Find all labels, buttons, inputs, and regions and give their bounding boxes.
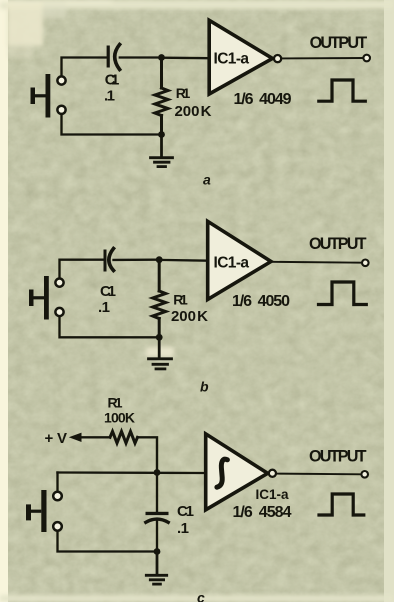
wire: buffer output to terminal (b) [271, 261, 362, 264]
svg-text:100K: 100K [104, 409, 135, 425]
terminal lower (a) [57, 106, 65, 114]
pushbutton S1 (circuit c) [26, 490, 47, 532]
wire: bubble to output terminal (a) [281, 57, 363, 59]
junction node A top (a) [158, 54, 165, 61]
svg-text:R1: R1 [108, 395, 123, 411]
terminal lower (b) [55, 308, 63, 316]
svg-text:IC1-a: IC1-a [256, 487, 289, 502]
junction node (c) [154, 469, 161, 476]
wire: node to buffer input (b) [159, 259, 207, 262]
svg-text:1/6 4049: 1/6 4049 [234, 91, 292, 108]
svg-text:IC1-a: IC1-a [214, 51, 250, 68]
wire: input rail (c) [58, 471, 205, 474]
resistor R1 200K (b) [153, 260, 166, 338]
buffer U1 IC1-a (b) [208, 221, 271, 299]
svg-text:C1: C1 [100, 283, 116, 300]
svg-text:R1: R1 [173, 292, 188, 308]
svg-text:200 K: 200 K [175, 103, 212, 120]
output terminal (b) [362, 260, 369, 267]
op-amp inverter U1 IC1-a (a) [209, 20, 272, 94]
ground (c) [146, 552, 166, 585]
svg-text:c: c [197, 590, 205, 602]
wire: capacitor down to bottom node (c) [156, 521, 158, 552]
pushbutton S1 (circuit a) [31, 74, 51, 118]
wire: upper terminal to top rail (b) [60, 260, 104, 279]
svg-text:b: b [200, 379, 209, 395]
capacitor C1 (c) [146, 512, 169, 523]
capacitor C1 (a) [107, 45, 120, 70]
terminal upper (b) [55, 279, 63, 287]
ground (b) [149, 337, 172, 369]
hysteresis symbol (c) [217, 459, 228, 487]
junction node bottom (a) [158, 131, 165, 138]
arrow to +V (c) [69, 433, 110, 442]
svg-text:IC1-a: IC1-a [214, 254, 250, 271]
pulse waveform icon (b) [319, 282, 367, 305]
wire: upper terminal to top rail (a) [62, 58, 107, 77]
terminal lower (c) [53, 522, 62, 531]
svg-text:C1: C1 [177, 503, 194, 520]
svg-text:C1: C1 [105, 72, 120, 89]
capacitor C1 (b) [104, 249, 114, 272]
svg-text:200 K: 200 K [171, 308, 208, 325]
svg-text:.1: .1 [104, 87, 115, 104]
wire: lower terminal to bottom rail (b) [60, 317, 160, 338]
inverter output bubble (a) [274, 55, 281, 62]
junction node bottom (c) [154, 548, 161, 555]
svg-text:1/6 4050: 1/6 4050 [232, 293, 290, 310]
svg-text:.1: .1 [98, 299, 110, 316]
junction node bottom (b) [156, 334, 163, 341]
junction node top (b) [156, 256, 163, 263]
wire: resistor to corner then down to node (c) [138, 437, 158, 472]
wire: bubble to output terminal (c) [276, 473, 362, 476]
terminal upper (c) [53, 492, 62, 501]
terminal upper (a) [57, 76, 65, 84]
schmitt output bubble (c) [269, 470, 276, 477]
svg-text:OUTPUT: OUTPUT [309, 448, 367, 466]
wire: capacitor to node A (a) [120, 56, 162, 58]
wire: node down to capacitor (c) [156, 473, 158, 512]
pushbutton S1 (circuit b) [29, 276, 49, 320]
svg-text:.1: .1 [177, 520, 189, 537]
svg-text:1/6 4584: 1/6 4584 [233, 504, 292, 521]
wire: upper terminal up to rail (c) [56, 473, 58, 492]
pulse waveform icon (c) [319, 494, 364, 515]
wire: lower terminal to bottom rail (c) [58, 531, 158, 552]
wire: capacitor to node (b) [114, 259, 160, 262]
svg-text:R1: R1 [176, 85, 191, 101]
output terminal (a) [363, 55, 370, 62]
wire: lower terminal to bottom rail (a) [62, 115, 162, 135]
svg-text:a: a [203, 172, 211, 188]
svg-text:OUTPUT: OUTPUT [309, 235, 367, 253]
svg-text:OUTPUT: OUTPUT [310, 34, 368, 52]
output terminal (c) [361, 471, 368, 478]
resistor R1 100K horizontal (c) [110, 431, 138, 443]
schmitt trigger U1 IC1-a (c) [206, 434, 268, 510]
ground (a) [151, 135, 173, 167]
pulse waveform icon (a) [319, 80, 366, 101]
wire: node A to inverter input (a) [162, 57, 209, 60]
resistor R1 200K (a) [155, 58, 168, 135]
